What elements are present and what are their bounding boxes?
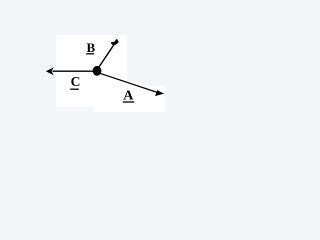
svg-text:C: C [71, 74, 81, 89]
white panel right step 2 [142, 86, 165, 112]
svg-text:A: A [123, 89, 134, 104]
white panel right step 1 [127, 82, 142, 112]
white panel lower band [94, 106, 165, 112]
vector A arrowhead [155, 90, 164, 96]
label A underline [123, 101, 135, 103]
label C underline [70, 88, 79, 90]
label B underline [86, 53, 94, 55]
white panel main (diagram background) [56, 35, 127, 107]
vector A shaft [99, 73, 158, 93]
vector B arrowhead [111, 39, 119, 45]
vector C shaft [53, 70, 98, 72]
svg-text:B: B [87, 40, 96, 55]
origin dot [93, 66, 102, 76]
vector C arrowhead [46, 67, 54, 75]
vector B shaft [97, 45, 113, 69]
